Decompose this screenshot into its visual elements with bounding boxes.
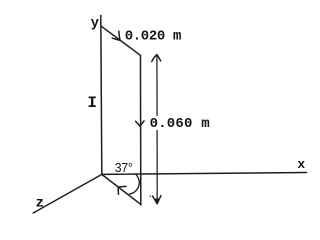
dimension line 0.060 m lower part [156, 131, 158, 204]
current arrowhead on vertical wire (down) [136, 121, 145, 126]
x-axis [102, 173, 307, 175]
svg-text:x: x [297, 157, 305, 172]
wire segment bottom diagonal [102, 174, 141, 204]
svg-text:0.020 m: 0.020 m [125, 28, 181, 44]
z-axis [33, 174, 102, 213]
svg-text:z: z [36, 196, 44, 212]
svg-text:37°: 37° [115, 161, 133, 175]
svg-text:y: y [91, 16, 100, 32]
wire segment vertical [139, 55, 141, 205]
angle arc 37 deg [129, 175, 139, 194]
dimension arrowhead down fill [155, 199, 160, 205]
wire segment top 0.020 m [101, 26, 140, 55]
svg-text:0.060 m: 0.060 m [150, 116, 210, 132]
dimension arrowhead down [153, 196, 162, 204]
dimension arrowhead up [152, 55, 161, 62]
dimension line 0.060 m upper part [156, 55, 158, 116]
current arrowhead on top segment [112, 31, 120, 40]
current arrowhead on bottom segment [118, 186, 126, 194]
y-axis [101, 16, 102, 175]
svg-text:I: I [87, 94, 97, 112]
ink speck [150, 196, 152, 198]
